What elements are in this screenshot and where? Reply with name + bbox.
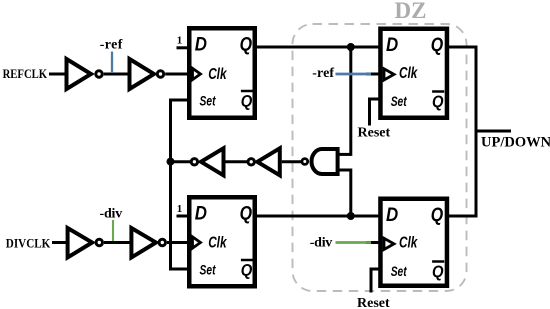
node junction on set bus: [167, 158, 175, 166]
svg-text:D: D: [195, 204, 207, 225]
D flip-flop U3 (top middle): [189, 28, 255, 118]
node -div tick (green): [112, 220, 114, 241]
wire logic-1 tie to U3 D: [177, 46, 190, 49]
wire U9 to U10: [226, 160, 248, 163]
svg-text:REFCLK: REFCLK: [3, 66, 48, 81]
inverter U2: [130, 59, 155, 89]
svg-text:D: D: [386, 35, 398, 56]
wire U2 to U3 Clk: [165, 73, 188, 76]
wire REFCLK to inverter U1: [49, 73, 66, 76]
svg-text:Set: Set: [391, 94, 407, 109]
node -ref tick (blue): [111, 52, 113, 74]
wire U3.Q to U7.D (top bus): [255, 46, 380, 49]
svg-text:UP/DOWN: UP/DOWN: [481, 135, 550, 151]
node junction top bus: [347, 43, 355, 51]
wire -ref to U7.Clk (black stub): [366, 73, 381, 76]
wire bottom bus to NAND bottom input: [349, 169, 352, 217]
wire output rail vertical: [475, 46, 478, 218]
svg-text:DIVCLK: DIVCLK: [6, 235, 51, 250]
svg-text:Q: Q: [432, 92, 444, 111]
svg-text:-div: -div: [100, 206, 123, 221]
inverter U10 (left-facing): [248, 159, 254, 165]
wire logic-1 tie to U6 D: [177, 215, 190, 218]
wire U4 to U5: [104, 241, 132, 244]
svg-text:-div: -div: [310, 235, 333, 250]
inverter U9 (left-facing): [191, 159, 197, 165]
svg-text:Clk: Clk: [208, 235, 227, 252]
svg-text:Set: Set: [200, 262, 216, 277]
wire U1 to U2: [104, 73, 130, 76]
svg-text:1: 1: [177, 203, 183, 215]
wire U8.Q to output rail: [447, 215, 478, 218]
NAND gate U11 (left-facing): [302, 159, 308, 165]
svg-text:-ref: -ref: [100, 37, 123, 52]
wire U5 to U6 Clk: [167, 241, 188, 244]
svg-text:D: D: [195, 35, 207, 56]
svg-text:1: 1: [177, 35, 183, 47]
svg-text:Q: Q: [432, 262, 444, 281]
wire top bus to NAND top input: [349, 47, 352, 156]
svg-text:-ref: -ref: [312, 66, 334, 81]
svg-text:Clk: Clk: [399, 65, 418, 82]
node junction bottom bus: [347, 212, 355, 220]
svg-text:Reset: Reset: [358, 126, 391, 141]
D flip-flop U6 (bottom middle): [189, 197, 255, 286]
wire -ref colored blue: [336, 73, 372, 76]
wire -div to U8.Clk (black stub): [366, 241, 381, 244]
svg-text:DZ: DZ: [395, 0, 427, 23]
svg-text:Q: Q: [241, 92, 253, 111]
svg-text:Q: Q: [240, 35, 253, 56]
wire U7.Q to output rail: [447, 46, 478, 49]
svg-text:Q: Q: [241, 261, 253, 280]
svg-text:Clk: Clk: [208, 66, 227, 83]
wire Set feedback bus (vertical with ends to U3.Set and U6.Set): [171, 100, 190, 269]
svg-text:Q: Q: [431, 205, 444, 226]
wire junction to inverter U9: [171, 160, 191, 163]
dead-zone dashed box DZ: [293, 24, 467, 291]
wire DIVCLK to inverter U4: [52, 241, 68, 244]
wire UP/DOWN stub: [476, 130, 511, 133]
svg-text:Set: Set: [391, 264, 407, 279]
wire NAND top input stub: [338, 153, 351, 156]
wire U6.Q to U8.D (bottom bus): [255, 215, 380, 218]
svg-text:Clk: Clk: [399, 235, 418, 252]
inverter U5: [131, 228, 156, 258]
svg-text:Q: Q: [431, 35, 444, 56]
wire U7.Set to Reset stub: [370, 99, 382, 126]
inverter U4: [68, 228, 93, 258]
D flip-flop U8 (bottom right, in DZ): [380, 199, 447, 286]
wire -div colored green: [336, 241, 372, 244]
inverter U1: [67, 59, 92, 89]
wire U10 to NAND U11: [282, 160, 301, 163]
svg-text:Reset: Reset: [357, 296, 390, 309]
wire NAND bottom input stub: [338, 169, 351, 172]
svg-text:Set: Set: [200, 93, 216, 108]
wire U8.Set to Reset stub: [371, 269, 381, 293]
svg-text:Q: Q: [240, 204, 253, 225]
D flip-flop U7 (top right, in DZ): [380, 29, 447, 118]
svg-text:D: D: [386, 205, 398, 226]
